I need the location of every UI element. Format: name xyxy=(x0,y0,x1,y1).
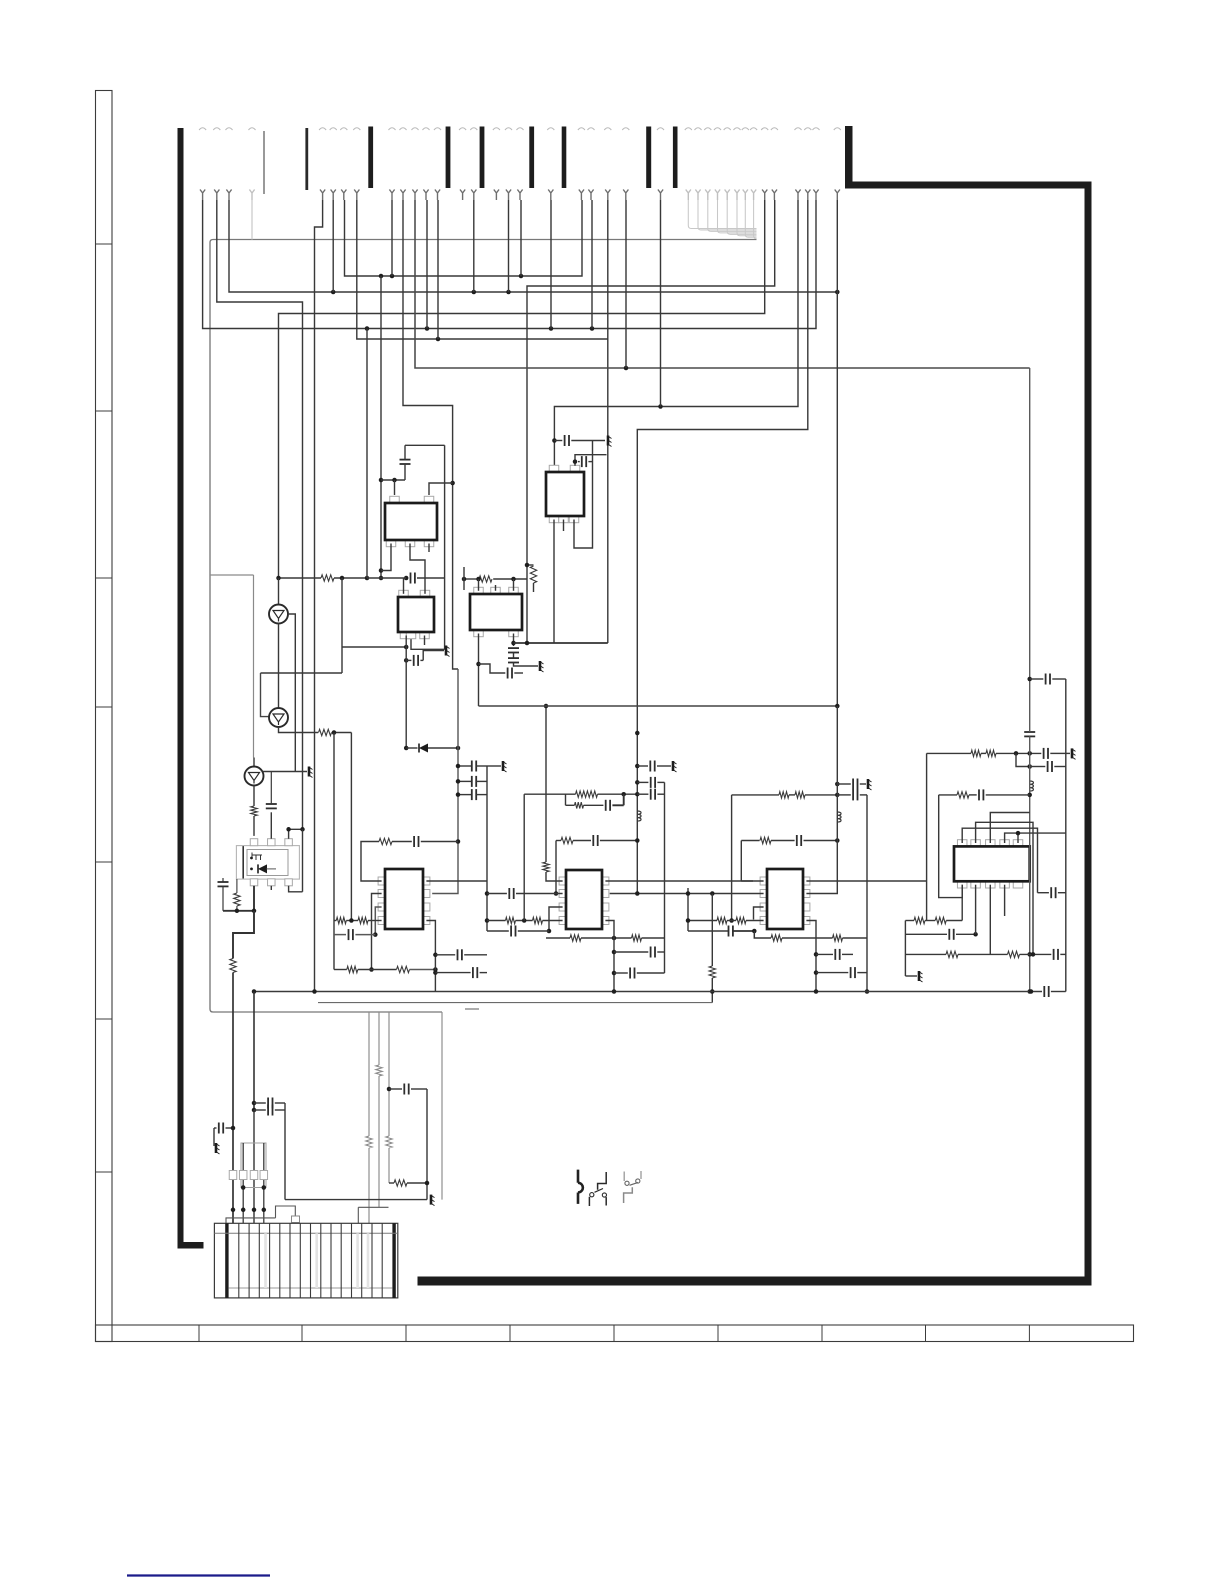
wire v444.6 long drop xyxy=(444,445,446,649)
inductor L1 on v637.3 xyxy=(637,811,641,821)
series cap C29 on v1029.7 xyxy=(1024,731,1035,733)
connector divider thick bar 1 xyxy=(368,127,373,189)
net H647 to left xyxy=(342,646,406,648)
junction dots above connector xyxy=(231,1208,236,1213)
switch SW2 (gray) xyxy=(624,1187,633,1203)
net H753.4 with R26 R27 C27 and ground G6 xyxy=(927,752,971,754)
bus H991.5 (ground rail) xyxy=(254,991,1042,993)
wire U1 bottom pin3 stub xyxy=(428,544,430,553)
bus H706 (supply rail) xyxy=(479,705,838,707)
wire U6 pin1R to rail 487 xyxy=(426,880,487,882)
net circle3 to ground G3 xyxy=(263,771,307,773)
light gray wire fan hooks xyxy=(688,200,756,229)
wire C1 stems xyxy=(404,464,406,480)
PCB outline thick top horizontal xyxy=(845,182,1092,189)
wire R4 to opto pin1 xyxy=(253,816,255,836)
transistor/LED indicator Q1 (circle) xyxy=(269,605,288,624)
wire U8 pin1R right xyxy=(806,880,926,882)
row A stage3 R22 R23 xyxy=(688,920,717,922)
opto-isolator U5 outer (gray) xyxy=(236,846,299,880)
connector divider thin bar xyxy=(263,131,265,194)
wire U9 bottom pin3 drop xyxy=(989,885,991,955)
capacitor pair C36 C37 xyxy=(254,1102,266,1104)
bus H328.5 net xyxy=(203,200,816,329)
IC U9 (output driver) xyxy=(957,840,967,847)
resistor R6 vertical xyxy=(236,879,238,893)
wire v334 left rail stage1 xyxy=(333,733,335,970)
feedback H840.5 with R21 C21 xyxy=(741,840,759,842)
wire v254 into connector xyxy=(253,1110,255,1223)
cap C42 row H461.6 xyxy=(578,461,580,463)
wire pin550.8 drop xyxy=(550,200,552,329)
wire U8 pin3L elbow xyxy=(754,907,764,920)
PCB outline thick left bar xyxy=(178,128,184,1248)
wire U9 bottom pin2 drop xyxy=(975,885,977,935)
wire v867 xyxy=(866,795,868,992)
net H766.5 cap C28 xyxy=(1016,753,1030,766)
wire pin322.6 jog + long vertical v314.5 xyxy=(315,200,323,992)
transistor/LED indicator Q3 (circle) xyxy=(245,767,264,786)
feedback loop H840.5 with R14 C14 xyxy=(555,841,557,894)
cap C30 top right with v1065.8 xyxy=(1030,678,1044,680)
bus H339 net xyxy=(357,200,608,339)
wire opto top pin2 cap stem xyxy=(270,812,272,838)
bottom title strip xyxy=(96,1325,1134,1342)
wire U2 bottom pin1 long drop to H643 xyxy=(553,520,555,644)
staircase wire U9 top pin1 xyxy=(962,828,1037,893)
capacitor C5 above opto xyxy=(266,803,277,805)
wire v254 heavy to caps pair xyxy=(253,992,255,1111)
connector CN10 light internal lines xyxy=(264,1233,267,1288)
wire v664.5 right rail stage2 xyxy=(664,782,666,973)
resistor R3 vertical right of U4 xyxy=(527,564,534,566)
cap C10 right of v435.4 xyxy=(435,972,470,974)
stub line near left xyxy=(465,1008,479,1010)
wire U4 top pin1 xyxy=(478,579,480,591)
cap C9 right of v435.4 xyxy=(435,954,455,956)
net H954.4 with R31 R32 C34 xyxy=(905,953,946,955)
staircase wire U9 top pin3 xyxy=(990,813,1029,844)
wire U4 top pin2 stub xyxy=(495,585,497,591)
net H910.8 heavy xyxy=(223,910,254,912)
wire pin333.2 drop xyxy=(332,200,334,292)
wire pin660.5 drop xyxy=(660,200,662,407)
row H920.5 stage4 with R29 R30 xyxy=(905,920,914,922)
wire U6 pin4R drop v435.4 xyxy=(426,921,435,992)
wire pin520 drop xyxy=(520,200,522,276)
wire U3 top pin2 to H578 xyxy=(424,578,426,594)
bus H313.5 net xyxy=(279,200,765,578)
bus H429.5 net (wide loop) xyxy=(610,200,808,894)
opto U5 pins xyxy=(250,839,258,846)
bus H406.5 net xyxy=(554,200,798,472)
wire pin625.8 drop xyxy=(625,200,627,368)
wire U2 bottom pin2 stub xyxy=(563,520,565,532)
wire U7 pin3L elbow xyxy=(549,907,563,931)
wire loop H649.3 to U3 pin2 bottom xyxy=(411,636,445,650)
wire v427 xyxy=(426,1089,428,1200)
IC U8 (stage 3 amp) xyxy=(760,877,767,885)
wire rail v688 xyxy=(687,888,689,931)
opto U5 inner symbol xyxy=(247,850,288,876)
net H1207.3 right group xyxy=(358,1206,388,1208)
cap C25 xyxy=(816,953,833,955)
wire v524.2 drop xyxy=(523,794,525,920)
cap C26 xyxy=(816,972,848,974)
wire left rail v905.4 xyxy=(904,921,906,977)
inductor L3 on v1029.7 xyxy=(1030,781,1034,791)
row A H920.5 stage2 with R15 R16 xyxy=(487,920,506,922)
IC U2 xyxy=(549,465,559,472)
bus H292 net xyxy=(229,200,837,292)
gray bus wire H239 with corner to long left vertical xyxy=(210,240,757,1013)
wire U7 pin4R drop v614 xyxy=(605,921,614,992)
wire pin607.8 long drop xyxy=(607,200,609,643)
wire pin508.5 drop xyxy=(508,200,510,292)
wire v458 top segment xyxy=(457,669,459,748)
feedback H794.9 with R19 R20 xyxy=(732,794,779,796)
wire pin473.8 drop xyxy=(473,200,475,292)
wire v351.4 drop to stage1 row A xyxy=(350,733,352,921)
wire U1 bottom pin1 xyxy=(381,544,391,571)
wire pin392 drop xyxy=(391,200,393,276)
wire pin437.5 drop xyxy=(437,200,439,339)
wire v592.5 loop to U2 pin3 bottom xyxy=(574,441,593,549)
ground G2 xyxy=(445,646,448,656)
net H794.9 stage4 with R28 C31 xyxy=(939,794,957,796)
wire opto top pin3 to v302.5 xyxy=(289,829,303,838)
caps right of v637.3 with ground xyxy=(635,731,640,736)
wire v405 from U3 pin1 down to diode row xyxy=(405,636,407,749)
cap row H893.5 with C15 xyxy=(487,893,507,895)
wire U6 pin2L to row B xyxy=(372,894,382,970)
cap C19 xyxy=(637,781,648,783)
wire H445.3 to v444.6 xyxy=(405,444,445,446)
caps column C11 C12 C13 xyxy=(458,765,472,767)
ground G3 xyxy=(308,767,311,777)
connector pin at 403 xyxy=(400,128,407,130)
cap C22 xyxy=(837,794,851,796)
cap row H934.6 with C8 xyxy=(334,934,346,936)
diode D1 row xyxy=(404,746,409,751)
wire U6 pin3L to cap row (gray) xyxy=(375,907,381,935)
wire H483 to U1 pin xyxy=(429,483,453,495)
wire v285 down to H1199.6 xyxy=(284,1103,286,1200)
wire opto bottom pin3 to v302.5 xyxy=(289,886,303,892)
cap row H893.5 stage3 xyxy=(637,893,763,895)
wire v381 vertical xyxy=(380,276,382,578)
connector CN10 body xyxy=(214,1223,397,1298)
cap C17 xyxy=(614,951,648,953)
fuse F1 (vertical with bump) xyxy=(577,1170,580,1204)
net H673 xyxy=(261,672,343,674)
capacitor C6 left cluster xyxy=(222,878,224,882)
blue footer rule xyxy=(127,1574,270,1576)
inductor L2 on v837.3 xyxy=(837,812,841,822)
transistor/LED indicator Q2 (circle) xyxy=(269,708,288,727)
cap C18 xyxy=(614,972,628,974)
gray verticals from H1012 xyxy=(368,1012,370,1136)
bus H276 net xyxy=(345,200,583,276)
wire v278.5 above circle1 xyxy=(278,578,280,605)
elbow wires into connector left xyxy=(226,1218,276,1223)
wire U9 top pin5 stub xyxy=(1017,833,1019,843)
connector divider thick bar 6 xyxy=(646,127,651,189)
wire circle1 right elbow down v295.3 xyxy=(288,614,296,772)
wire U4 top pin3 xyxy=(513,579,515,591)
net H1199.6 with ground G9 xyxy=(285,1199,427,1201)
IC U3 xyxy=(399,590,409,597)
staircase wire U9 top pin4 xyxy=(1005,833,1066,843)
wire U4 bottom pin2 caps to ground xyxy=(513,634,515,647)
feedback net H794.2 stage2 (double resistor R34 R35 + cap) xyxy=(524,793,575,795)
resistor R4 vertical xyxy=(251,806,257,816)
wire gray v253.5 xyxy=(253,575,255,758)
ground G10 on caps column xyxy=(487,765,501,767)
wire U7 pin1R to stage3 rail xyxy=(605,880,753,882)
connector pin boxes inline xyxy=(229,1171,237,1180)
IC U4 xyxy=(474,587,484,594)
row B H938 with R17 R18 xyxy=(546,937,570,939)
wire v837 long vertical to stage 3 xyxy=(836,292,838,706)
wire v1029.7 main gray vertical xyxy=(1029,368,1031,732)
wire v741.3 loop rail into U8 pin1 xyxy=(740,841,742,882)
cap row H931 with C16 xyxy=(487,930,509,932)
wire gray H575 branch xyxy=(210,574,254,576)
cap C32 to v1065.8 xyxy=(1038,892,1049,894)
wire v302.5 lower segment xyxy=(302,829,304,892)
wire U4 bottom pin1 = v479 to bus H706 xyxy=(478,634,480,707)
wire v837.3 into U8 pin2R xyxy=(806,706,837,894)
wire v367 drop xyxy=(366,329,368,579)
cap C39 row H1089 xyxy=(387,1087,392,1092)
ground G7 bottom left of stage4 xyxy=(905,975,917,977)
IC U6 (stage 1 amp) xyxy=(378,877,385,885)
connector CN10 cell dividers xyxy=(238,1223,240,1298)
wire v278.5 between circles xyxy=(278,624,280,708)
connector divider thick bar 7 xyxy=(673,127,678,189)
caps right of v837.3 and ground G5 xyxy=(835,782,840,787)
box around connector feed wires xyxy=(241,1143,266,1188)
bus H286 net xyxy=(527,200,775,643)
IC U1 xyxy=(390,496,400,503)
wire U3 top pin1 to H578 xyxy=(403,578,405,594)
wire pin591 drop xyxy=(591,200,593,329)
PCB outline thick top-right corner vertical xyxy=(845,126,853,183)
wire v712.3 drop with R37 xyxy=(711,894,713,967)
wire v464 stub xyxy=(463,567,465,590)
wire v342 drop to H673 xyxy=(341,578,343,673)
staircase wire U9 top pin2 xyxy=(976,822,1033,954)
bus H368 net (to right IC block) xyxy=(415,200,1030,368)
connector CN10 inner horizontals xyxy=(214,1232,397,1234)
wire U3 bottom pin3 stub xyxy=(424,636,426,646)
wires v243.2 v263.8 into connector xyxy=(242,1143,244,1223)
wire v546 from bus with R13 vertical xyxy=(545,706,547,862)
net H643 heavy xyxy=(514,642,608,644)
wire v731.6 feedback drop xyxy=(731,795,733,921)
PCB outline thick bottom horizontal xyxy=(418,1277,1092,1286)
switch SW1 xyxy=(598,1172,607,1190)
resistor R33 row H1183 xyxy=(389,1182,394,1184)
connector divider thick bar 4 xyxy=(529,127,534,189)
wire U6 pin1L feedback loop with R8 and C7 xyxy=(361,842,382,882)
bus H302 net xyxy=(217,200,303,829)
wire v1065.8 right rail xyxy=(1065,679,1067,992)
capacitor C38 with ground G8 xyxy=(214,1127,217,1129)
net H660.4 with cap C4 to ground G2 xyxy=(404,658,409,663)
wire IC1 top pin1 lead xyxy=(394,480,396,495)
drawing margin column (left) xyxy=(96,91,113,1342)
connector divider thick bar 3 xyxy=(480,127,485,189)
connector pin terminals xyxy=(200,190,205,201)
connector CN10 thick edges xyxy=(225,1223,228,1298)
wire U9 bottom pin4 stub xyxy=(1004,885,1006,916)
connector divider thick bar 2 xyxy=(446,127,451,189)
IC U7 (stage 2 amp) xyxy=(559,877,566,885)
capacitor C3 off v479 xyxy=(476,662,481,667)
net H440.5 with cap C41 and ground G11 xyxy=(554,440,562,442)
connector pin labels (faint) xyxy=(199,128,206,130)
feedback net H805.3 stage2 (R36 + cap C40) xyxy=(565,794,567,805)
wire pin837 drop to H292 xyxy=(836,200,838,292)
resistor R7 vertical xyxy=(230,959,236,973)
PCB outline thick right vertical xyxy=(1085,182,1092,1286)
net pin403-H405.5-v452.6 to IC1 pin xyxy=(403,200,458,669)
wire U8 pin4R drop v816 xyxy=(806,921,816,992)
connector divider bar CN2 xyxy=(305,128,308,190)
wire elbow H673 into circle2 xyxy=(261,673,269,717)
wire v938.7 and H897.6 to U9 pin1 bottom xyxy=(939,795,963,898)
wire U2 top pin2 riser and H454.7 xyxy=(575,455,607,466)
wire v926.6 left rail stage4 xyxy=(926,753,928,920)
cap C35 on bus end xyxy=(1043,986,1045,997)
wire opto bottom pin1 drop (heavy) xyxy=(253,886,255,911)
net H934.3 with cap C33 xyxy=(905,933,947,935)
cap row H931 stage3 C24 xyxy=(688,930,728,932)
net H579 with resistor R2 xyxy=(464,578,478,580)
wire v458 vertical (right rail of stage1) xyxy=(457,748,459,888)
wire circle3 down to resistor xyxy=(253,786,255,807)
wire v233 to bottom connector (heavy) xyxy=(232,973,234,1224)
wire H480 to IC1 pin xyxy=(381,479,405,481)
wire rail v487 xyxy=(486,766,488,931)
row B H938 stage3 R24 R25 xyxy=(754,931,771,938)
wire pin252 drop (gray) xyxy=(251,200,253,240)
connector divider thick bar 5 xyxy=(562,127,567,189)
wire circle3 top stub xyxy=(253,758,255,767)
PCB outline thick left-bottom foot xyxy=(178,1242,204,1249)
ground G4 xyxy=(672,761,675,771)
bus H1003 secondary xyxy=(318,1002,712,1004)
row A H920.5 with R9 R10 xyxy=(334,920,336,922)
wire pin426 drop xyxy=(426,200,428,329)
wire heavy jog down to R7 xyxy=(233,911,254,959)
net H732.5 circle2 bottom to stage1 (resistor R5) xyxy=(279,727,319,733)
net H578 with resistor R1 and capacitor C2 xyxy=(279,577,322,579)
capacitor C1 above IC1 xyxy=(400,459,411,461)
wire U9 bottom pin1 drop xyxy=(961,885,963,921)
row B H969.5 with R11 R12 xyxy=(334,969,347,971)
wire U1 bottom pin2 to H578 xyxy=(410,544,425,579)
ground G1 xyxy=(539,661,542,671)
wire opto bottom pin2 stub xyxy=(270,886,272,890)
